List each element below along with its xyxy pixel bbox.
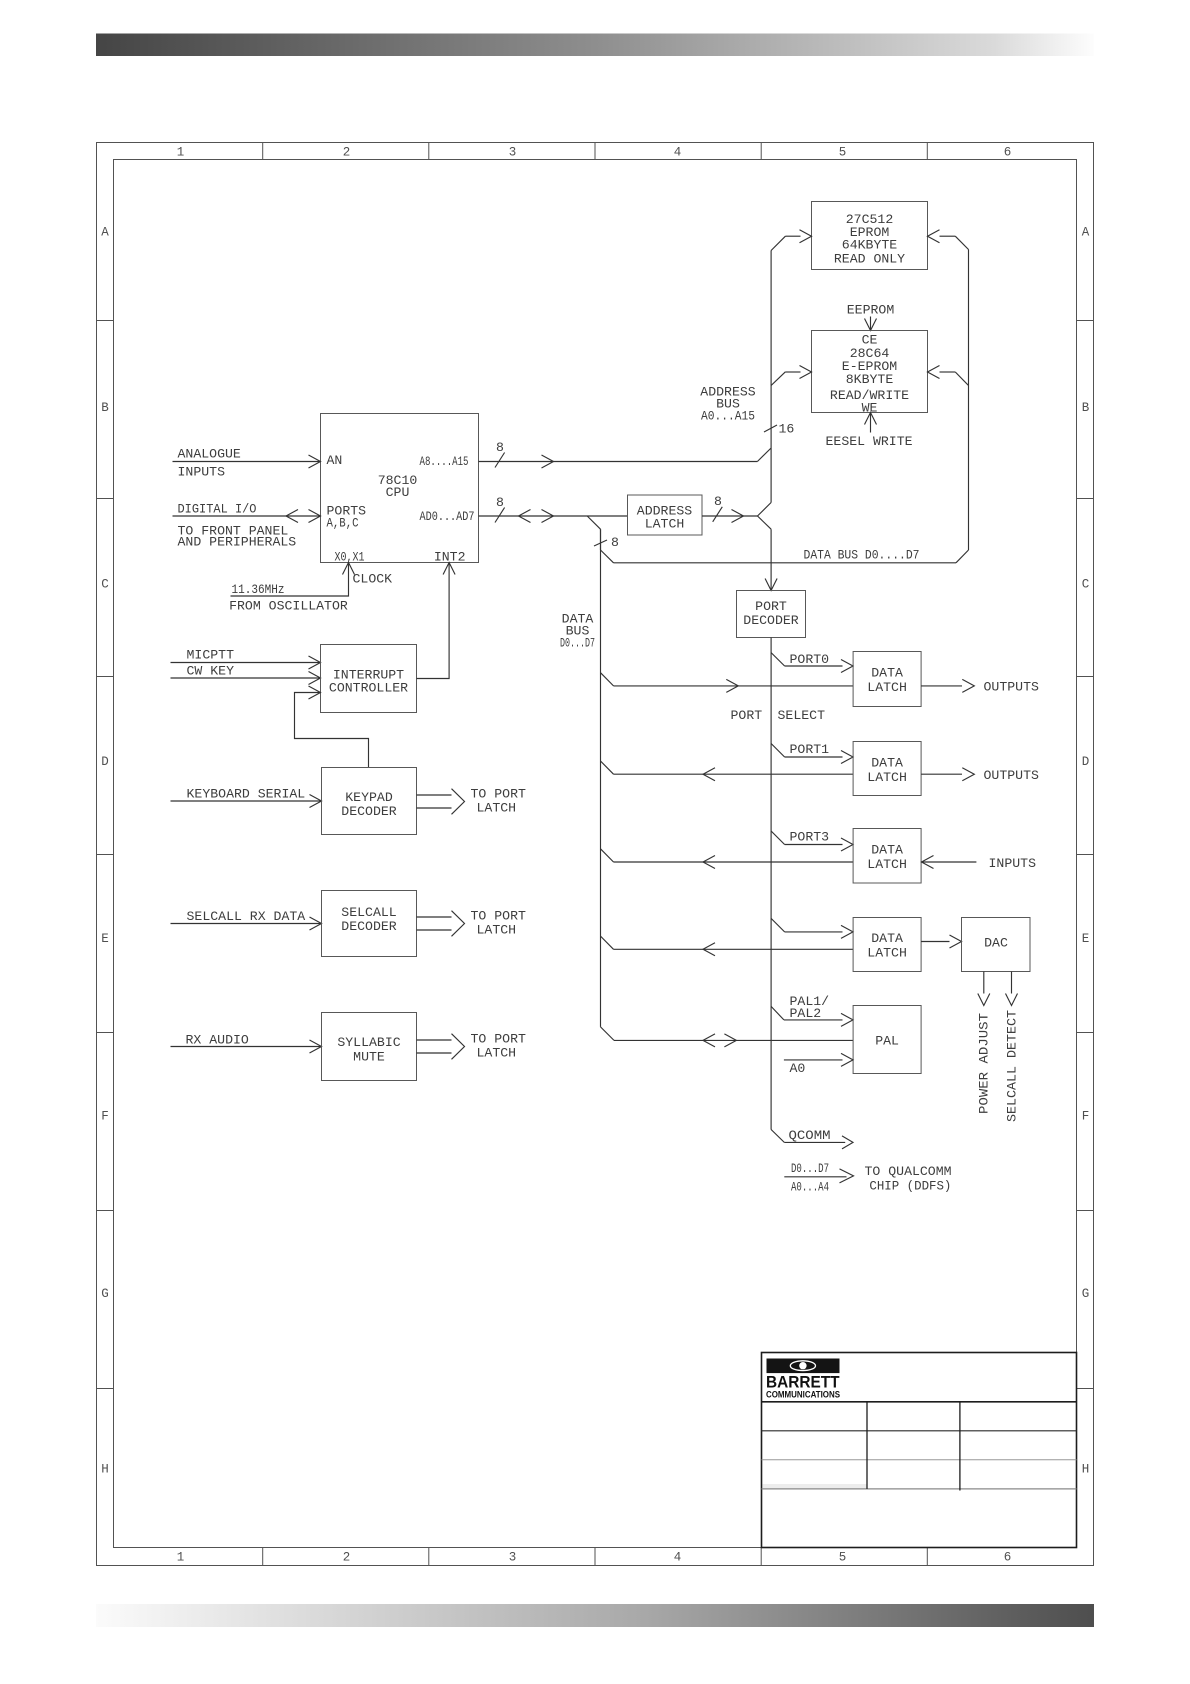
svg-text:CONTROLLER: CONTROLLER	[329, 680, 408, 695]
svg-text:SYLLABIC: SYLLABIC	[337, 1035, 400, 1050]
block 27C512 EPROM	[812, 202, 928, 270]
svg-text:8KBYTE: 8KBYTE	[846, 372, 894, 387]
svg-text:PORT1: PORT1	[790, 742, 830, 757]
svg-text:LATCH: LATCH	[867, 857, 907, 872]
block port decoder	[737, 591, 806, 638]
wire CW KEY to interrupt controller	[171, 677, 321, 679]
svg-text:INT2: INT2	[434, 549, 466, 564]
bus width slash 8 (latch output)	[713, 507, 723, 522]
bus fork diagonals into address riser	[758, 503, 772, 517]
svg-text:8: 8	[611, 535, 619, 550]
svg-text:LATCH: LATCH	[477, 1045, 517, 1060]
wire keyboard serial to keypad decoder	[171, 800, 322, 802]
wire MICPTT to interrupt controller	[171, 662, 321, 664]
svg-text:3: 3	[509, 146, 517, 160]
svg-text:E: E	[1082, 932, 1090, 946]
svg-text:C: C	[101, 578, 109, 592]
svg-text:2: 2	[343, 146, 351, 160]
svg-text:LATCH: LATCH	[477, 922, 517, 937]
svg-text:6: 6	[1004, 146, 1012, 160]
svg-text:DATA: DATA	[871, 665, 903, 680]
wire DAC output power adjust	[983, 972, 985, 994]
svg-text:FROM OSCILLATOR: FROM OSCILLATOR	[229, 598, 348, 613]
svg-text:X0,X1: X0,X1	[335, 549, 365, 564]
svg-text:D: D	[1082, 755, 1090, 769]
svg-text:A8....A15: A8....A15	[420, 454, 469, 469]
svg-text:4: 4	[674, 1551, 682, 1565]
svg-text:QCOMM: QCOMM	[789, 1128, 831, 1143]
svg-text:EEPROM: EEPROM	[847, 303, 895, 318]
svg-text:LATCH: LATCH	[645, 517, 685, 532]
svg-text:DATA: DATA	[871, 842, 903, 857]
svg-text:8: 8	[496, 440, 504, 455]
svg-text:G: G	[1082, 1287, 1090, 1301]
svg-text:DECODER: DECODER	[341, 804, 396, 819]
wire data bus branch row1	[601, 673, 614, 686]
svg-text:SELCALL RX DATA: SELCALL RX DATA	[187, 909, 306, 924]
row ticks right band	[1077, 320, 1094, 322]
svg-text:1: 1	[177, 146, 185, 160]
svg-text:A: A	[101, 226, 109, 240]
svg-text:CLOCK: CLOCK	[353, 572, 393, 587]
svg-text:B: B	[101, 401, 109, 415]
logo ellipse eye	[790, 1361, 815, 1371]
svg-text:PAL2: PAL2	[790, 1006, 822, 1021]
wire A0 into PAL	[784, 1059, 843, 1061]
wire data bus branch row4	[601, 936, 614, 949]
wire data latch 4 to DAC	[921, 941, 949, 943]
title table row line 2	[762, 1430, 1077, 1432]
wire INT2 from interrupt controller to CPU	[417, 563, 450, 679]
svg-text:DAC: DAC	[984, 935, 1008, 950]
svg-text:8: 8	[496, 495, 504, 510]
wire AD0...AD7 from CPU to address latch (bidirectional)	[479, 515, 628, 517]
block data latch 1	[853, 652, 921, 707]
svg-text:D: D	[101, 755, 109, 769]
bus entry diagonal A8...A15	[757, 448, 771, 462]
wire port3 select branch	[771, 831, 785, 845]
svg-text:AND PERIPHERALS: AND PERIPHERALS	[178, 535, 297, 550]
svg-text:KEYBOARD SERIAL: KEYBOARD SERIAL	[187, 787, 306, 802]
svg-text:H: H	[1082, 1463, 1090, 1477]
svg-text:OUTPUTS: OUTPUTS	[984, 680, 1039, 695]
block arrow syllabic mute to port latch	[417, 1039, 452, 1041]
wire EESEL WRITE arrow into 28C64 WE	[870, 413, 872, 433]
bus width slash 16 (address bus)	[764, 425, 777, 432]
svg-text:C: C	[1082, 578, 1090, 592]
block 28C64 E-EPROM	[812, 331, 928, 413]
svg-text:D0...D7: D0...D7	[560, 635, 595, 650]
svg-text:EESEL WRITE: EESEL WRITE	[826, 434, 913, 449]
svg-text:B: B	[1082, 401, 1090, 415]
inner drawing border	[114, 160, 1077, 1548]
wire clock from oscillator to CPU X0,X1	[231, 563, 349, 597]
svg-text:POWER ADJUST: POWER ADJUST	[976, 1013, 991, 1114]
wire D0...D7 A0...A4 stub to Qualcomm chip	[784, 1176, 846, 1178]
wire row4 select branch	[771, 918, 785, 932]
wire data latch 2 outputs	[921, 773, 962, 775]
svg-text:8: 8	[714, 494, 722, 509]
column ticks top band	[262, 143, 264, 160]
svg-text:INPUTS: INPUTS	[989, 856, 1037, 871]
block selcall decoder	[322, 891, 417, 957]
title table column line 2	[959, 1402, 961, 1491]
wire data bus into EPROM right	[955, 236, 968, 249]
svg-text:TO QUALCOMM: TO QUALCOMM	[865, 1164, 952, 1179]
wire A8...A15 from CPU to address bus	[479, 461, 758, 463]
wire analogue inputs to CPU AN	[173, 461, 321, 463]
wire data bus horizontal to memory	[614, 562, 957, 564]
block DAC	[962, 918, 1031, 972]
block arrow selcall to port latch	[417, 916, 452, 918]
wire data bus vertical segment upper	[600, 529, 602, 550]
block syllabic mute	[322, 1013, 417, 1081]
svg-text:DIGITAL I/O: DIGITAL I/O	[178, 502, 257, 517]
wire address bus riser upper	[770, 251, 772, 449]
svg-text:READ ONLY: READ ONLY	[834, 251, 905, 266]
block U1 78C10 CPU	[321, 414, 479, 563]
wire port0 select branch	[771, 653, 785, 666]
svg-text:CHIP (DDFS): CHIP (DDFS)	[869, 1179, 951, 1194]
block data latch 3	[853, 829, 921, 884]
top gradient banner	[96, 34, 1094, 57]
wire EEPROM chip-enable arrow into 28C64 CE	[870, 317, 872, 331]
svg-text:11.36MHz: 11.36MHz	[232, 582, 285, 597]
svg-text:LATCH: LATCH	[867, 945, 907, 960]
svg-text:A0...A15: A0...A15	[701, 409, 755, 424]
svg-text:LATCH: LATCH	[477, 800, 517, 815]
svg-text:COMMUNICATIONS: COMMUNICATIONS	[766, 1389, 840, 1400]
svg-text:RX AUDIO: RX AUDIO	[186, 1033, 249, 1048]
svg-text:16: 16	[779, 421, 795, 436]
title table light strip	[763, 1484, 867, 1489]
svg-text:INPUTS: INPUTS	[178, 465, 226, 480]
diagonal data bus to horizontal run	[601, 550, 614, 563]
svg-text:A0: A0	[790, 1061, 806, 1076]
svg-text:KEYPAD: KEYPAD	[345, 790, 393, 805]
wire port1 select branch	[771, 744, 785, 758]
svg-text:MICPTT: MICPTT	[187, 648, 235, 663]
block interrupt controller	[321, 645, 417, 713]
block arrow keypad to port latch	[417, 794, 452, 796]
wire DAC output selcall detect	[1011, 972, 1013, 994]
wire QCOMM branch from port select riser	[771, 1130, 784, 1143]
wire data bus into 28C64 right	[955, 372, 968, 386]
wire data bus riser middle	[600, 529, 602, 1027]
svg-text:AN: AN	[327, 453, 343, 468]
wire keypad decoder to interrupt controller input	[295, 693, 369, 768]
wire data bus branch to PAL (bidirectional)	[601, 1027, 615, 1041]
wire PAL select branch	[771, 1006, 784, 1020]
svg-text:OUTPUTS: OUTPUTS	[984, 768, 1039, 783]
column ticks bottom band	[262, 1548, 264, 1566]
block keypad decoder	[322, 768, 417, 835]
svg-text:A0...A4: A0...A4	[791, 1180, 829, 1195]
svg-text:PAL: PAL	[875, 1033, 899, 1048]
wire digital I/O to CPU ports (bidirectional)	[173, 515, 321, 517]
wire port select riser	[770, 638, 772, 1130]
wire address latch output to address bus	[702, 515, 758, 517]
wire address bus riser middle	[770, 448, 772, 503]
svg-text:CW KEY: CW KEY	[187, 664, 235, 679]
wire data latch 1 outputs	[921, 685, 962, 687]
svg-text:E: E	[101, 932, 109, 946]
svg-text:ANALOGUE: ANALOGUE	[178, 446, 241, 461]
wire data bus branch row3	[601, 849, 614, 862]
svg-text:MUTE: MUTE	[353, 1050, 385, 1065]
svg-text:2: 2	[343, 1551, 351, 1565]
wire selcall rx data to selcall decoder	[171, 923, 322, 925]
svg-text:1: 1	[177, 1551, 185, 1565]
title table top line	[762, 1401, 1077, 1403]
logo Barrett black banner	[767, 1359, 840, 1374]
svg-text:F: F	[101, 1110, 109, 1124]
title block border	[762, 1353, 1077, 1548]
diagonal horizontal data bus to right riser	[956, 550, 969, 563]
row ticks left band	[97, 320, 114, 322]
title table bottom line	[762, 1488, 1077, 1490]
block data latch 2	[853, 742, 921, 796]
svg-text:CPU: CPU	[386, 485, 410, 500]
svg-text:LATCH: LATCH	[867, 770, 907, 785]
svg-text:3: 3	[509, 1551, 517, 1565]
svg-text:PORT: PORT	[731, 708, 763, 723]
svg-text:H: H	[101, 1463, 109, 1477]
wire data bus right riser	[968, 250, 970, 551]
bus width slash 8 (AD0...AD7)	[495, 508, 505, 523]
node data bus branch from AD0...AD7	[587, 516, 600, 529]
svg-text:DATA: DATA	[871, 931, 903, 946]
title table row line 3	[762, 1459, 1077, 1461]
svg-text:DECODER: DECODER	[743, 613, 798, 628]
svg-text:DATA: DATA	[871, 755, 903, 770]
block address latch	[628, 495, 703, 535]
svg-text:AD0...AD7: AD0...AD7	[420, 509, 475, 524]
svg-text:SELECT: SELECT	[778, 708, 826, 723]
svg-text:PORT: PORT	[755, 599, 787, 614]
svg-text:5: 5	[839, 146, 847, 160]
bus width slash 8 (data bus branch)	[594, 540, 607, 546]
title table column line 1	[866, 1402, 868, 1489]
svg-text:LATCH: LATCH	[867, 680, 907, 695]
wire rx audio to syllabic mute	[171, 1046, 322, 1048]
svg-text:PORT3: PORT3	[790, 830, 830, 845]
wire address bus riser lower to port decoder	[770, 529, 772, 590]
svg-text:A: A	[1082, 226, 1090, 240]
svg-text:F: F	[1082, 1110, 1090, 1124]
svg-text:SELCALL: SELCALL	[341, 905, 396, 920]
svg-text:PORT0: PORT0	[790, 652, 830, 667]
wire address bus into EPROM left	[771, 236, 785, 250]
svg-text:A,B,C: A,B,C	[327, 516, 359, 531]
block data latch 4	[853, 918, 921, 972]
svg-text:G: G	[101, 1287, 109, 1301]
svg-text:DATA BUS D0....D7: DATA BUS D0....D7	[804, 548, 920, 563]
svg-text:4: 4	[674, 146, 682, 160]
svg-text:5: 5	[839, 1551, 847, 1565]
svg-text:DECODER: DECODER	[341, 919, 396, 934]
bus width slash 8 (A8...A15)	[495, 453, 505, 468]
wire inputs into data latch 3	[922, 861, 977, 863]
svg-text:D0...D7: D0...D7	[791, 1161, 829, 1176]
block PAL	[853, 1006, 921, 1074]
svg-text:SELCALL DETECT: SELCALL DETECT	[1004, 1010, 1019, 1122]
wire address bus into 28C64 left	[771, 372, 785, 386]
outer sheet border	[97, 143, 1094, 1566]
logo eye pupil	[799, 1362, 806, 1369]
svg-text:6: 6	[1004, 1551, 1012, 1565]
wire data bus branch row2	[601, 761, 614, 774]
bottom gradient banner	[96, 1604, 1094, 1627]
